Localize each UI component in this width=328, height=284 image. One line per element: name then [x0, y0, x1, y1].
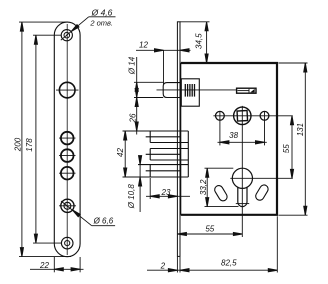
- dim 14: [134, 57, 164, 135]
- svg-text:Ø 6,6: Ø 6,6: [93, 217, 114, 226]
- svg-text:55: 55: [205, 224, 214, 233]
- latch slot block: [237, 88, 256, 93]
- oval left: [213, 184, 228, 202]
- dim 34.5: [180, 22, 210, 63]
- latch guide block: [181, 79, 199, 106]
- svg-text:12: 12: [139, 40, 148, 49]
- label 4.6: [89, 7, 113, 27]
- svg-text:42: 42: [116, 148, 125, 157]
- svg-text:82,5: 82,5: [221, 259, 237, 268]
- follower square hole: [234, 106, 251, 237]
- dim 178: [33, 35, 62, 243]
- svg-text:22: 22: [39, 261, 49, 270]
- dim 10.8: [139, 156, 142, 212]
- follower row line: [213, 115, 292, 117]
- dim 33.2: [205, 168, 239, 206]
- dim 200: [19, 22, 71, 257]
- deadbolt rod1: [123, 131, 189, 143]
- latch centerline: [157, 89, 237, 91]
- svg-text:Ø 10,8: Ø 10,8: [127, 184, 136, 210]
- svg-text:200: 200: [14, 137, 23, 152]
- latch spring: [185, 84, 194, 97]
- svg-text:178: 178: [25, 138, 34, 152]
- hole top countersunk: [61, 30, 72, 41]
- svg-text:55: 55: [282, 144, 291, 153]
- deadbolt rod3: [123, 165, 189, 177]
- svg-text:26: 26: [128, 113, 137, 123]
- svg-text:2 отв.: 2 отв.: [89, 19, 113, 28]
- svg-text:Ø 4,6: Ø 4,6: [91, 7, 113, 17]
- dim 42: [124, 131, 127, 177]
- hole row c: [59, 167, 76, 180]
- hole right small: [260, 111, 269, 145]
- deadbolt rod2: [146, 149, 189, 161]
- latch bolt head: [163, 83, 180, 98]
- dim 55 vertical: [290, 116, 293, 179]
- oval right: [254, 183, 269, 201]
- hole row b: [59, 149, 76, 162]
- svg-text:33,2: 33,2: [199, 179, 208, 195]
- faceplate centerline: [66, 24, 68, 255]
- dim 23: [146, 178, 190, 199]
- hole 6.6: [59, 199, 76, 212]
- svg-text:Ø 14: Ø 14: [127, 56, 136, 75]
- dim 131: [279, 63, 308, 215]
- cylinder hole: [230, 168, 292, 206]
- leader 4.6: [61, 17, 116, 40]
- lock case outline: [181, 63, 277, 215]
- faceplate side view: [177, 22, 180, 257]
- svg-text:2: 2: [160, 262, 166, 271]
- deadbolt rear edge: [187, 131, 189, 177]
- dim 26: [135, 98, 138, 132]
- hole bottom countersunk: [61, 237, 73, 249]
- dim 2 and 82.5: [147, 216, 277, 272]
- dim 12: [136, 49, 191, 84]
- svg-text:131: 131: [296, 123, 305, 136]
- svg-text:38: 38: [229, 131, 238, 140]
- faceplate front view outline: [54, 22, 80, 257]
- leader 6.6: [61, 201, 115, 226]
- hole row a: [59, 132, 76, 145]
- hole left small: [216, 111, 225, 145]
- hole latch: [56, 82, 79, 98]
- svg-text:23: 23: [161, 188, 171, 197]
- svg-text:34,5: 34,5: [195, 33, 204, 49]
- dim 38: [218, 141, 267, 144]
- dim 22: [30, 257, 84, 272]
- dim 55 bottom: [177, 232, 242, 235]
